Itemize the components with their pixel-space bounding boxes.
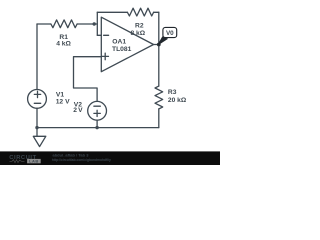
svg-text:12V: 12V [56,98,70,105]
svg-text:TL081: TL081 [112,46,132,53]
V1 minus sign [34,102,40,104]
wire: top-left lead to R1 [37,23,51,25]
svg-text:LAB: LAB [29,159,39,164]
resistor R3 [155,86,163,109]
svg-text:20kΩ: 20kΩ [168,97,187,104]
svg-text:8kΩ: 8kΩ [131,30,146,37]
junction dot: V1 at ground bus [35,126,38,129]
svg-text:OA1: OA1 [112,38,126,45]
svg-text:V0: V0 [166,30,174,37]
footer watermark bar [0,151,220,165]
annotation V0 callout tail [158,37,167,45]
footer logo LAB badge [27,159,41,163]
junction dot: output node [157,43,161,47]
V2 minus sign [94,105,100,107]
svg-text:4kΩ: 4kΩ [56,41,71,48]
junction dot: V2 at ground bus [95,126,98,129]
wire: output node down to R3 [158,45,160,87]
wire: feedback top lead to R2 [97,11,127,13]
ground stub [36,128,38,137]
wire: R2 right lead to top-right corner [154,11,159,13]
op-amp U1 triangle [101,17,153,71]
wire: R3 bottom lead to bus corner [158,109,160,128]
wire: left vertical upper (top corner to V1 top) [36,24,38,90]
wire: ground bus [37,127,159,129]
footer logo waveform [10,160,25,163]
wire: V2 bottom to bus [96,120,98,127]
wire: left vertical lower (V1 bottom to ground bus) [36,108,38,127]
wire: op-amp output stub [154,44,159,46]
voltage source V1 (circle) [28,90,47,109]
ground symbol [33,136,46,146]
annotation V0 box [163,27,177,37]
svg-text:http://circuitlab.com/c/gbondm: http://circuitlab.com/c/gbondmohdfliy [52,158,111,162]
node A junction dot [93,22,96,25]
svg-text:R3: R3 [168,89,177,96]
op-amp inverting input marker [104,34,109,36]
wire: R1 right lead to node A [77,23,97,25]
wire: node A vertical riser (feedback/input split) [96,12,98,35]
svg-text:abdul_aftab / Tab 3: abdul_aftab / Tab 3 [53,152,90,157]
svg-text:2V: 2V [73,107,83,114]
svg-text:R2: R2 [135,23,144,30]
V2 plus sign [94,110,100,116]
wire: right vertical from R2 corner down to output node [158,12,160,44]
V1 plus sign [34,91,40,97]
resistor R2 [127,8,153,16]
voltage source V2 (circle) [88,101,107,120]
wire: non-inverting input run to V2 [74,57,102,102]
op-amp non-inverting input marker [102,53,109,60]
wire: inverting input stub [97,34,101,36]
resistor R1 [51,20,77,28]
